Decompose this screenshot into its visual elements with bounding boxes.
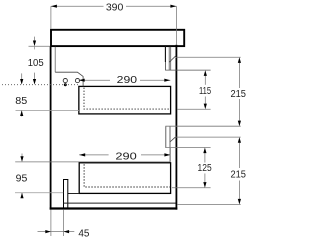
slide hole circle 2 bbox=[75, 79, 79, 83]
dimension 85 bbox=[16, 73, 80, 116]
slide pin dot bbox=[64, 83, 67, 86]
svg-text:125: 125 bbox=[198, 163, 212, 174]
svg-text:115: 115 bbox=[199, 86, 211, 97]
mid rail jog diagonal bbox=[170, 137, 176, 142]
svg-text:390: 390 bbox=[106, 3, 124, 14]
lower 215 top extension bbox=[175, 136, 240, 138]
drawer right edge stub below mid rail bbox=[169, 148, 171, 163]
svg-text:45: 45 bbox=[78, 228, 90, 239]
svg-text:85: 85 bbox=[15, 96, 27, 107]
lower drawer front rectangle bbox=[79, 163, 170, 194]
svg-text:215: 215 bbox=[230, 170, 246, 181]
dimension 290 lower bbox=[79, 153, 170, 156]
svg-text:105: 105 bbox=[28, 58, 44, 69]
upper drawer box dashed lines bbox=[84, 88, 170, 110]
leg bracket left line bbox=[63, 180, 65, 208]
dimension 390 bbox=[51, 5, 176, 45]
dimension 125 bbox=[172, 148, 211, 188]
countertop bbox=[51, 30, 184, 46]
cabinet left side panel bbox=[50, 46, 52, 210]
dimension 105 bbox=[29, 37, 51, 85]
leg bracket top cap bbox=[63, 179, 68, 181]
top rail bottom cap and 115 top extension bbox=[165, 69, 211, 71]
top rail jog diagonal bbox=[169, 56, 175, 62]
drawer slide detail outline bbox=[55, 72, 83, 86]
svg-text:215: 215 bbox=[230, 89, 246, 100]
lower 215 bottom extension bbox=[177, 204, 240, 206]
dimension 215 lower bbox=[238, 137, 241, 204]
95 top extension line bbox=[15, 161, 170, 163]
slide centerline dotted bbox=[2, 84, 79, 86]
dimension 45 bbox=[38, 210, 75, 236]
top rail line 3 bbox=[170, 47, 172, 70]
dimension 95 bbox=[15, 154, 63, 199]
lower drawer bottom line left extension bbox=[68, 193, 79, 195]
cabinet right side panel bbox=[175, 45, 177, 210]
svg-text:290: 290 bbox=[115, 151, 137, 162]
top rail line 2 bbox=[168, 47, 170, 70]
bottom shelf line bbox=[64, 202, 176, 204]
top rail line 1 bbox=[165, 47, 167, 70]
lower drawer box dashed lines bbox=[84, 164, 170, 187]
slide hole circle 1 bbox=[63, 79, 67, 83]
dimension 115 bbox=[177, 70, 210, 109]
mid rail line 1 bbox=[165, 126, 167, 148]
dimension 215 upper bbox=[176, 57, 241, 126]
leg bracket right line bbox=[67, 180, 69, 208]
mid rail bottom cap and 125 top extension bbox=[165, 147, 210, 149]
svg-text:290: 290 bbox=[117, 75, 138, 86]
mid rail top cap and upper 215 bottom extension bbox=[165, 125, 240, 127]
mid rail line 2 bbox=[169, 126, 171, 148]
top rail line 1 dark segment bbox=[164, 47, 166, 62]
left panel inner face line bbox=[54, 47, 56, 72]
cabinet bottom panel bbox=[50, 207, 178, 209]
upper drawer front rectangle bbox=[79, 86, 171, 114]
svg-text:95: 95 bbox=[16, 173, 28, 184]
dimension 290 upper bbox=[79, 79, 171, 82]
